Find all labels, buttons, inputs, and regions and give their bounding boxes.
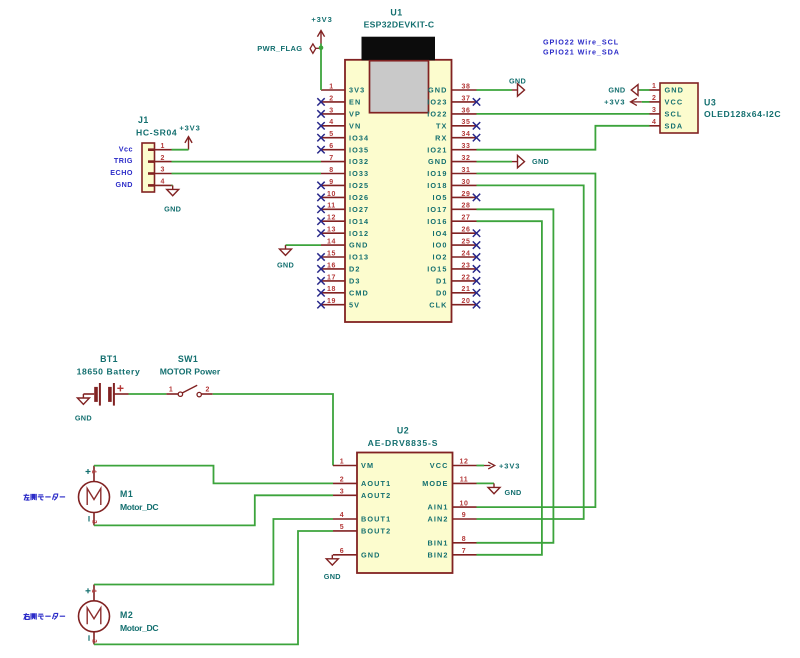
op-amp U1 ESP32 module body [345,60,452,322]
U1 pin 36 IO22 [452,113,477,115]
U1 pin 8 IO33 [321,173,345,175]
svg-text:BOUT1: BOUT1 [361,515,391,524]
wire SW1 to U2 VM [213,394,333,466]
power +3V3 at OLED [631,101,642,103]
svg-text:GND: GND [116,180,133,189]
svg-text:GND: GND [428,157,448,166]
svg-text:4: 4 [329,119,334,126]
svg-text:GND: GND [361,550,381,559]
ground at U1 pin14 [285,245,287,249]
svg-text:3: 3 [329,107,334,114]
ground at U2 MODE [493,483,495,487]
U1 pin 7 IO32 [321,161,345,163]
wire OLED VCC [642,101,650,103]
U1 pin 1 3V3 [321,89,345,91]
svg-text:IO14: IO14 [349,217,369,226]
svg-text:2: 2 [90,520,97,524]
U3 pin 1 GND [650,89,661,91]
svg-text:+3V3: +3V3 [604,97,625,106]
wire IO18 to AIN2 [477,185,584,519]
svg-text:2: 2 [329,95,334,102]
svg-text:34: 34 [462,131,471,138]
wire M2 minus to BOUT2 [94,531,333,644]
svg-text:GND: GND [532,157,549,166]
U2 pin 6 GND [333,554,357,556]
svg-text:IO32: IO32 [349,157,369,166]
svg-text:32: 32 [462,155,471,162]
U1 pin 22 D1 [452,280,477,282]
svg-text:6: 6 [340,548,345,555]
U1 pin 2 EN [321,101,345,103]
svg-text:3: 3 [161,167,165,174]
svg-text:VCC: VCC [430,461,449,470]
wire ECHO to IO33 [172,173,322,175]
svg-text:2: 2 [340,477,345,484]
power +3V3 at J1 [188,137,190,150]
svg-text:SDA: SDA [665,121,684,130]
U1 pin 17 D3 [321,280,345,282]
wire SDA IO21 to OLED [477,126,650,150]
svg-text:3: 3 [652,107,656,114]
svg-text:GND: GND [324,572,341,581]
svg-text:OLED128x64-I2C: OLED128x64-I2C [704,109,781,119]
svg-text:27: 27 [462,215,471,222]
svg-text:1: 1 [652,83,656,90]
U1 pin 14 GND [321,244,345,246]
svg-text:33: 33 [462,143,471,150]
svg-text:4: 4 [652,119,656,126]
svg-text:CMD: CMD [349,288,369,297]
svg-text:17: 17 [327,274,336,281]
svg-text:BOUT2: BOUT2 [361,527,391,536]
U1 pin 37 IO23 [452,101,477,103]
U1 pin 34 RX [452,137,477,139]
U1 pin 28 IO17 [452,208,477,210]
svg-text:IO18: IO18 [427,181,447,190]
svg-text:HC-SR04: HC-SR04 [136,127,177,137]
wire J1 GND [172,184,173,186]
J1 pin 1 [155,149,172,151]
U1 pin 20 CLK [452,304,477,306]
svg-text:M1: M1 [120,489,133,499]
wire M1 plus to AOUT1 [94,466,333,484]
svg-text:GND: GND [277,261,294,270]
svg-text:VCC: VCC [665,98,684,107]
svg-text:VP: VP [349,110,361,119]
svg-text:U2: U2 [397,425,409,435]
wire SCL IO22 to OLED [477,113,650,115]
svg-text:ECHO: ECHO [110,168,133,177]
svg-text:D2: D2 [349,265,361,274]
svg-text:12: 12 [460,459,469,466]
switch SW1 symbol [166,393,178,395]
U1 pin 5 IO34 [321,137,345,139]
svg-text:35: 35 [462,119,471,126]
svg-text:GND: GND [75,413,92,422]
svg-text:IO21: IO21 [427,145,447,154]
svg-text:1: 1 [169,386,173,393]
J1 pin 3 [155,173,172,175]
svg-text:36: 36 [462,107,471,114]
U1 pin 16 D2 [321,268,345,270]
J1 pin 2 [155,161,172,163]
U2 pin 3 AOUT2 [333,494,357,496]
svg-text:IO22: IO22 [427,110,447,119]
svg-text:21: 21 [462,286,471,293]
svg-text:12: 12 [327,215,336,222]
svg-text:30: 30 [462,179,471,186]
svg-text:1: 1 [340,459,345,466]
U1 pin 27 IO16 [452,220,477,222]
svg-text:IO2: IO2 [432,253,447,262]
U2 pin 9 AIN2 [453,518,477,520]
svg-text:IO23: IO23 [427,98,447,107]
svg-text:TX: TX [436,121,448,130]
wire IO19 to AIN1 [477,174,596,508]
svg-text:10: 10 [327,191,336,198]
wire M1 minus to AOUT2 [94,495,333,525]
U2 pin 11 MODE [453,482,477,484]
svg-text:AIN2: AIN2 [427,515,448,524]
svg-text:2: 2 [90,639,97,643]
svg-text:IO25: IO25 [349,181,369,190]
svg-text:IO13: IO13 [349,253,369,262]
svg-text:D1: D1 [436,277,448,286]
svg-text:Motor_DC: Motor_DC [120,502,158,512]
svg-text:23: 23 [462,262,471,269]
wire BT1 to SW1 [129,393,167,395]
U2 pin 8 BIN1 [453,542,477,544]
svg-text:IO5: IO5 [432,193,447,202]
U1 pin 33 IO21 [452,149,477,151]
U2 pin 10 AIN1 [453,506,477,508]
svg-text:1: 1 [90,470,97,474]
svg-text:GND: GND [505,488,522,497]
svg-text:BIN2: BIN2 [427,550,448,559]
wire +3V3 to U1 pin1 [320,44,322,91]
U1 pin 32 GND [452,161,477,163]
svg-text:MOTOR Power: MOTOR Power [160,366,221,376]
J1 pin 4 [155,184,172,186]
wire M2 plus to BOUT1 [94,519,333,585]
svg-text:VN: VN [349,121,361,130]
svg-text:15: 15 [327,250,336,257]
svg-text:2: 2 [161,155,165,162]
wire J1 Vcc to +3V3 [172,149,189,151]
svg-text:22: 22 [462,274,471,281]
svg-text:+3V3: +3V3 [311,15,332,24]
wire U1 pin38 GND [477,89,513,91]
U1 pin 10 IO26 [321,196,345,198]
svg-text:TRIG: TRIG [114,156,133,165]
motor M2 symbol [79,601,110,632]
U2 pin 5 BOUT2 [333,530,357,532]
svg-text:GND: GND [509,77,526,86]
svg-text:CLK: CLK [429,300,447,309]
U1 pin 11 IO27 [321,208,345,210]
junction dot [319,46,324,51]
ground at J1 [172,185,174,189]
svg-text:MODE: MODE [422,479,448,488]
svg-text:38: 38 [462,83,471,90]
svg-text:IO19: IO19 [427,169,447,178]
svg-text:GND: GND [428,86,448,95]
U2 body [357,453,453,574]
svg-text:3V3: 3V3 [349,86,365,95]
U2 pin 4 BOUT1 [333,518,357,520]
svg-text:5: 5 [340,524,345,531]
ground right at pin38 [512,89,518,91]
connector U3 body [660,83,698,133]
svg-text:AOUT2: AOUT2 [361,491,391,500]
svg-text:U3: U3 [704,98,716,108]
svg-text:13: 13 [327,227,336,234]
U1 pin 23 IO15 [452,268,477,270]
svg-text:IO0: IO0 [432,241,447,250]
svg-text:18650 Battery: 18650 Battery [77,366,141,376]
svg-text:1: 1 [90,589,97,593]
svg-text:SCL: SCL [665,110,683,119]
svg-text:GND: GND [665,86,685,95]
connector J1 body [142,143,155,192]
svg-text:5V: 5V [349,300,360,309]
svg-text:26: 26 [462,227,471,234]
svg-text:IO27: IO27 [349,205,369,214]
wire IO16 to BIN2 [477,221,542,555]
U1 pin 29 IO5 [452,196,477,198]
svg-text:AOUT1: AOUT1 [361,479,391,488]
svg-text:IO35: IO35 [349,145,369,154]
svg-text:Motor_DC: Motor_DC [120,623,158,633]
svg-text:11: 11 [460,477,469,484]
svg-text:IO17: IO17 [427,205,447,214]
svg-text:7: 7 [462,548,467,555]
power +3V3 top [320,31,322,44]
svg-text:IO12: IO12 [349,229,369,238]
U1 pin 30 IO18 [452,184,477,186]
U1 pin 35 TX [452,125,477,127]
U1 pin 4 VN [321,125,345,127]
svg-text:31: 31 [462,167,471,174]
svg-text:BIN1: BIN1 [427,538,448,547]
svg-text:1: 1 [329,83,334,90]
wire U1 pin14 GND [286,244,322,246]
svg-text:IO26: IO26 [349,193,369,202]
U1 pin 25 IO0 [452,244,477,246]
wire U2 VCC 3V3 [477,465,485,467]
U3 pin 2 VCC [650,101,661,103]
svg-text:AIN1: AIN1 [427,503,448,512]
svg-text:1: 1 [161,143,165,150]
svg-text:2: 2 [652,95,656,102]
U1 pin 26 IO4 [452,232,477,234]
U1 pin 13 IO12 [321,232,345,234]
svg-text:37: 37 [462,95,471,102]
wire TRIG to IO32 [172,161,322,163]
svg-text:IO4: IO4 [432,229,447,238]
svg-text:BT1: BT1 [100,354,118,364]
wire U2 MODE GND [477,482,495,484]
U1 pin 9 IO25 [321,184,345,186]
svg-text:GND: GND [164,204,181,213]
svg-text:11: 11 [327,203,336,210]
svg-text:GND: GND [349,241,369,250]
U1 pin 18 CMD [321,292,345,294]
ground at U2 GND pin [331,555,333,559]
svg-text:GPIO21 Wire_SDA: GPIO21 Wire_SDA [543,47,620,56]
svg-text:ESP32DEVKIT-C: ESP32DEVKIT-C [364,20,435,30]
svg-text:IO15: IO15 [427,265,447,274]
motor M1 symbol [79,482,110,513]
U1 antenna block [362,37,436,61]
U1 pin 31 IO19 [452,173,477,175]
svg-text:M2: M2 [120,610,133,620]
svg-text:AE-DRV8835-S: AE-DRV8835-S [368,438,439,448]
svg-text:5: 5 [329,131,334,138]
svg-text:8: 8 [462,536,467,543]
svg-text:RX: RX [435,133,447,142]
U1 pin 21 D0 [452,292,477,294]
svg-text:J1: J1 [138,115,149,125]
power +3V3 at U2 [484,465,491,467]
U1 pin 19 5V [321,304,345,306]
battery BT1 symbol [83,393,94,395]
power flag PWR_FLAG [316,47,322,49]
wire IO17 to BIN1 [477,209,554,543]
U1 pin 15 IO13 [321,256,345,258]
U1 pin 38 GND [452,89,477,91]
wire OLED GND [640,89,650,91]
U3 pin 3 SCL [650,113,661,115]
svg-text:IO33: IO33 [349,169,369,178]
wire U1 pin32 GND [477,161,513,163]
svg-text:SW1: SW1 [178,354,198,364]
ground left at OLED [638,89,640,91]
svg-text:EN: EN [349,98,361,107]
svg-text:10: 10 [460,500,469,507]
svg-text:20: 20 [462,298,471,305]
U2 pin 12 VCC [453,465,477,467]
svg-text:7: 7 [329,155,334,162]
svg-text:IO34: IO34 [349,133,369,142]
svg-text:3: 3 [340,489,345,496]
U2 pin 2 AOUT1 [333,482,357,484]
U2 pin 7 BIN2 [453,554,477,556]
svg-text:U1: U1 [390,8,402,18]
svg-text:25: 25 [462,239,471,246]
svg-text:29: 29 [462,191,471,198]
svg-text:+3V3: +3V3 [499,461,520,470]
svg-text:4: 4 [340,512,345,519]
label left-side motor (Japanese) [24,494,30,501]
svg-text:Vcc: Vcc [119,144,133,153]
svg-text:6: 6 [329,143,334,150]
svg-text:2: 2 [206,386,210,393]
ground right at pin32 [512,161,518,163]
U1 pin 12 IO14 [321,220,345,222]
ground at BT1 [82,394,84,398]
svg-text:+3V3: +3V3 [179,123,200,132]
svg-text:19: 19 [327,298,336,305]
svg-text:28: 28 [462,203,471,210]
svg-text:24: 24 [462,250,471,257]
svg-text:GPIO22 Wire_SCL: GPIO22 Wire_SCL [543,38,619,47]
svg-text:14: 14 [327,239,336,246]
svg-text:4: 4 [161,179,165,186]
svg-text:IO16: IO16 [427,217,447,226]
U2 pin 1 VM [333,465,357,467]
svg-text:9: 9 [462,512,467,519]
svg-text:PWR_FLAG: PWR_FLAG [257,44,302,53]
svg-text:9: 9 [329,179,334,186]
svg-text:D0: D0 [436,288,448,297]
svg-text:16: 16 [327,262,336,269]
svg-text:18: 18 [327,286,336,293]
U3 pin 4 SDA [650,125,661,127]
svg-text:D3: D3 [349,277,361,286]
U1 pin 3 VP [321,113,345,115]
U1 shield block [370,61,429,113]
U1 pin 24 IO2 [452,256,477,258]
label right-side motor (Japanese) [24,613,30,620]
svg-text:8: 8 [329,167,334,174]
svg-text:VM: VM [361,461,374,470]
U1 pin 6 IO35 [321,149,345,151]
svg-text:GND: GND [608,85,625,94]
